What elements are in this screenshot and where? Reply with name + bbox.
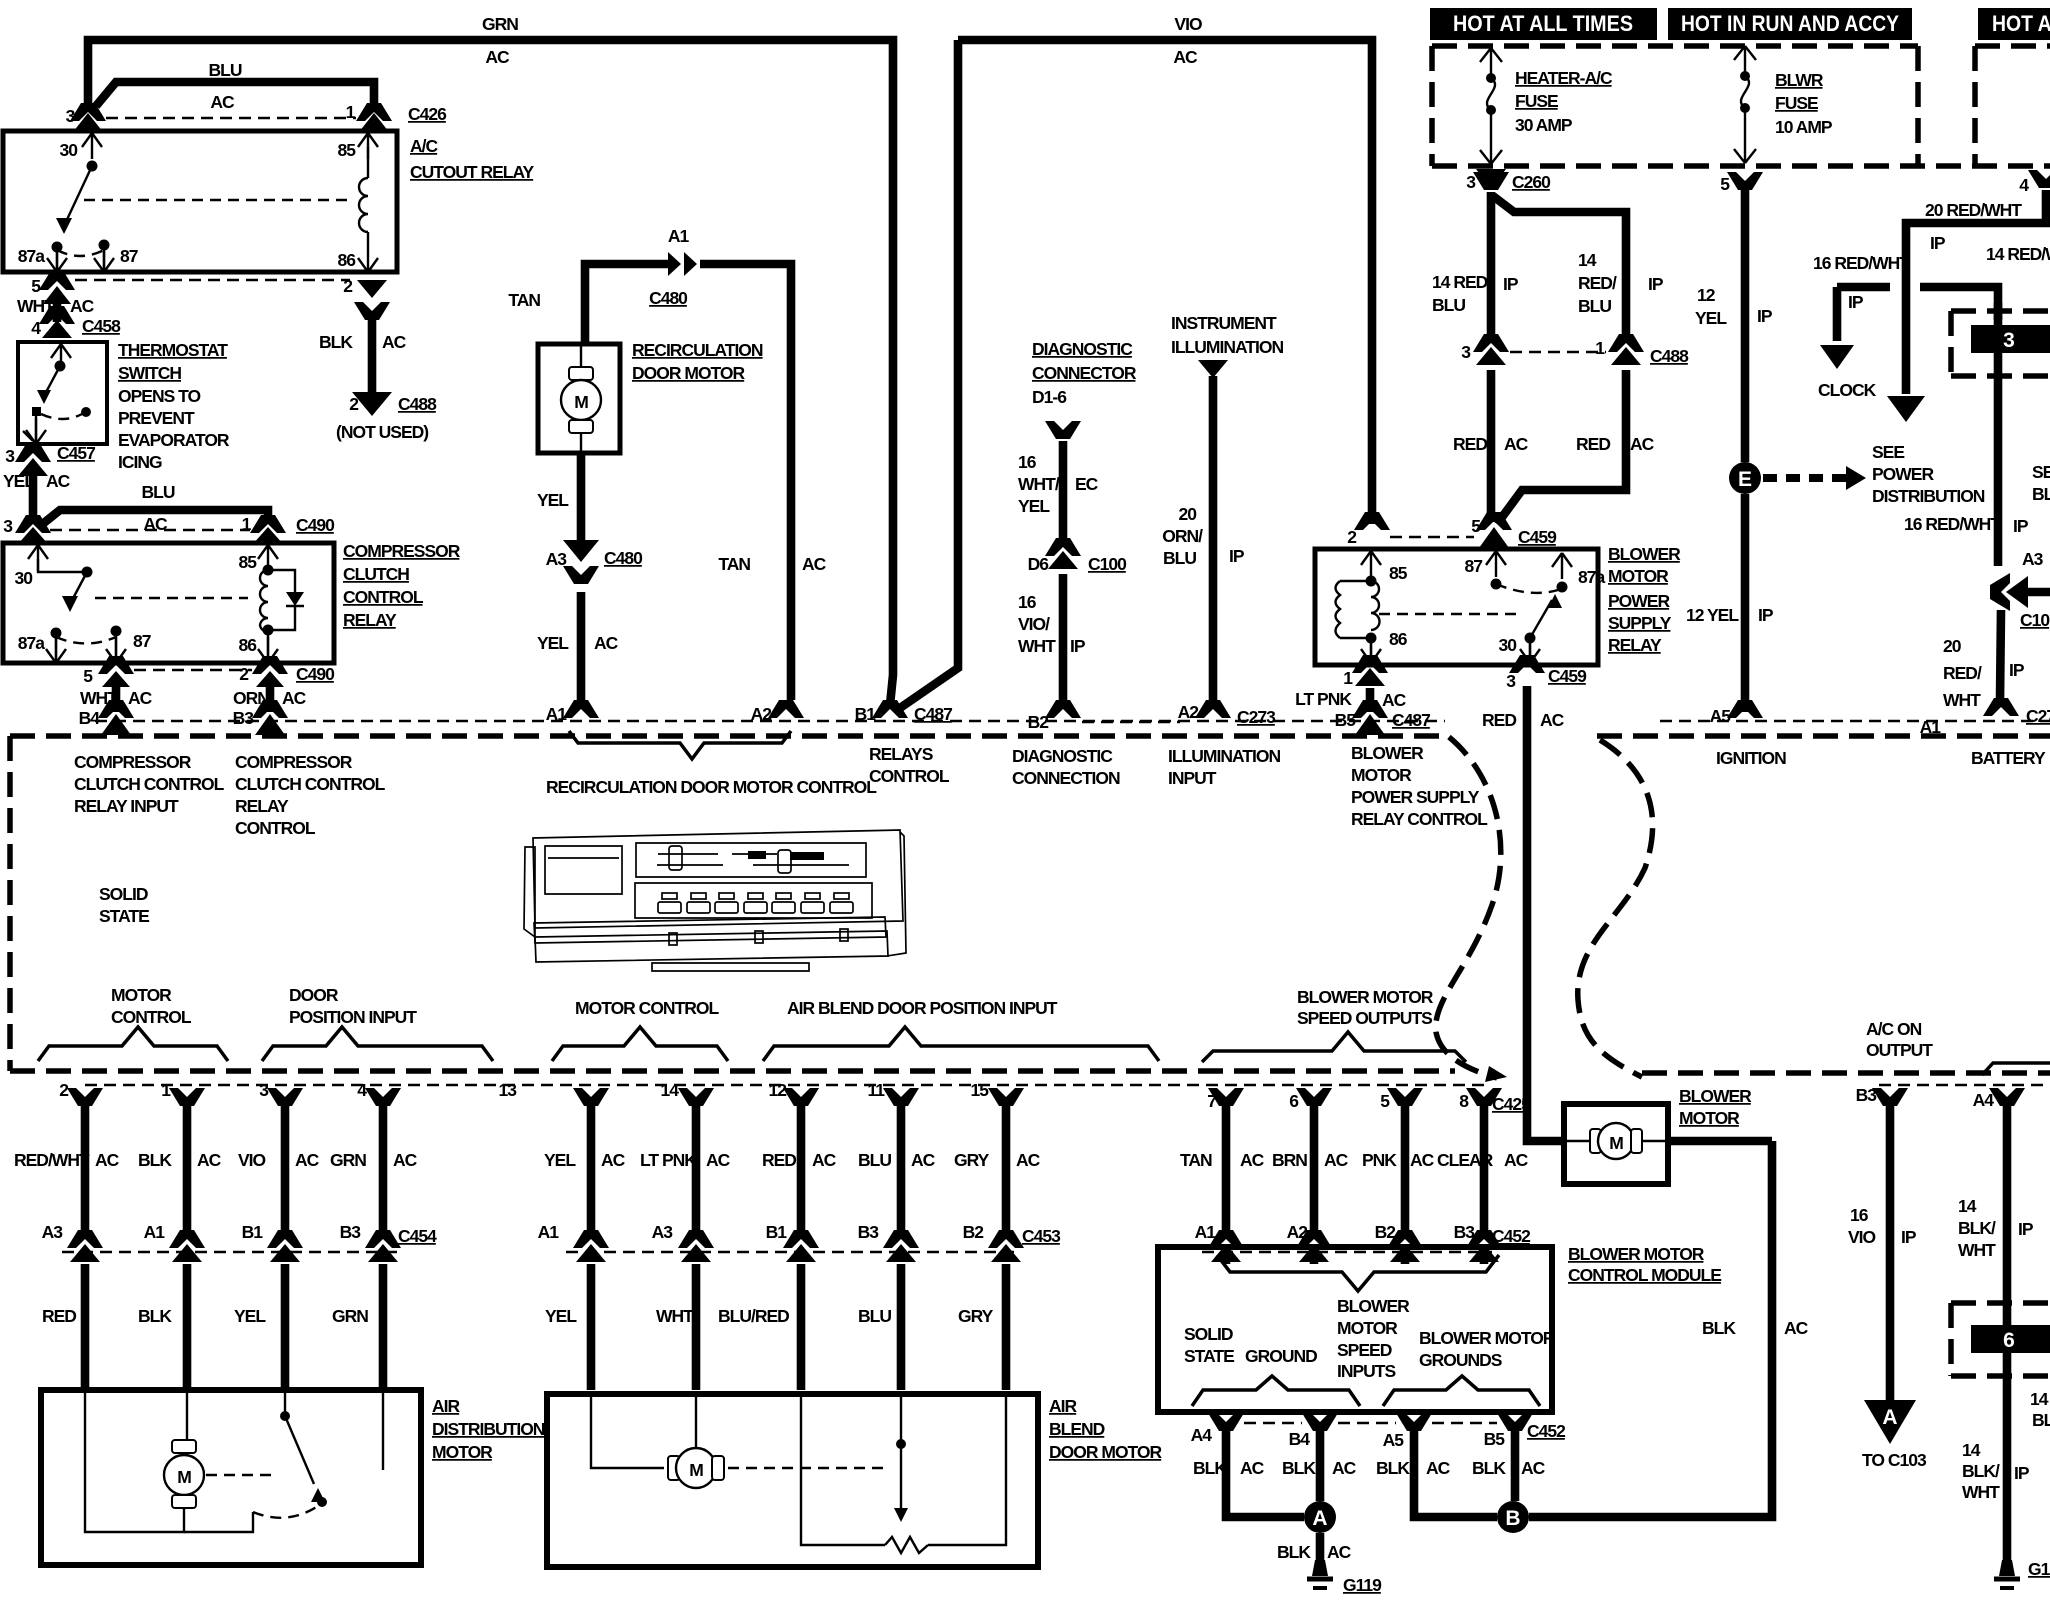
svg-text:AC: AC bbox=[1382, 690, 1407, 710]
svg-text:BLOWER MOTOR: BLOWER MOTOR bbox=[1419, 1328, 1556, 1348]
svg-text:14: 14 bbox=[661, 1080, 680, 1100]
svg-text:TAN: TAN bbox=[718, 554, 750, 574]
svg-text:B1: B1 bbox=[766, 1222, 788, 1242]
svg-text:5: 5 bbox=[1720, 174, 1730, 194]
svg-text:AC: AC bbox=[46, 471, 71, 491]
svg-text:HOT AT: HOT AT bbox=[1992, 11, 2050, 36]
svg-text:BLU: BLU bbox=[209, 60, 242, 80]
svg-text:COMPRESSOR: COMPRESSOR bbox=[235, 752, 353, 772]
svg-text:AC: AC bbox=[485, 47, 510, 67]
svg-text:3: 3 bbox=[3, 516, 13, 536]
svg-text:C27: C27 bbox=[2026, 706, 2050, 726]
svg-text:3: 3 bbox=[259, 1080, 269, 1100]
svg-text:3: 3 bbox=[1466, 172, 1476, 192]
svg-text:CONNECTOR: CONNECTOR bbox=[1032, 363, 1137, 383]
svg-text:30 AMP: 30 AMP bbox=[1515, 115, 1573, 135]
svg-text:YEL: YEL bbox=[537, 633, 569, 653]
svg-text:WHT: WHT bbox=[1962, 1482, 2000, 1502]
svg-text:5: 5 bbox=[1471, 516, 1481, 536]
svg-text:THERMOSTAT: THERMOSTAT bbox=[118, 340, 228, 360]
svg-text:YEL: YEL bbox=[3, 471, 35, 491]
svg-text:HEATER-A/C: HEATER-A/C bbox=[1515, 68, 1613, 88]
svg-text:1: 1 bbox=[1595, 338, 1605, 358]
svg-text:14: 14 bbox=[1962, 1440, 1981, 1460]
svg-text:RED: RED bbox=[1482, 710, 1516, 730]
svg-text:TAN: TAN bbox=[508, 290, 540, 310]
svg-text:A4: A4 bbox=[1191, 1425, 1213, 1445]
svg-text:IP: IP bbox=[1758, 605, 1774, 625]
svg-text:BLK: BLK bbox=[138, 1306, 172, 1326]
svg-text:FUSE: FUSE bbox=[1515, 91, 1558, 111]
svg-text:20 RED/WHT: 20 RED/WHT bbox=[1925, 200, 2022, 220]
svg-text:B5: B5 bbox=[1484, 1429, 1506, 1449]
svg-text:C426: C426 bbox=[408, 104, 447, 124]
svg-text:A: A bbox=[1312, 1507, 1327, 1530]
svg-text:BLOWER: BLOWER bbox=[1608, 544, 1681, 564]
svg-text:MOTOR: MOTOR bbox=[1351, 765, 1412, 785]
svg-text:AC: AC bbox=[1324, 1150, 1349, 1170]
svg-text:BLU: BLU bbox=[1432, 295, 1465, 315]
svg-text:RELAYS: RELAYS bbox=[869, 744, 933, 764]
svg-text:BLOWER MOTOR: BLOWER MOTOR bbox=[1568, 1244, 1705, 1264]
svg-text:MOTOR: MOTOR bbox=[432, 1442, 493, 1462]
svg-text:IGNITION: IGNITION bbox=[1716, 748, 1786, 768]
svg-text:A3: A3 bbox=[652, 1222, 674, 1242]
svg-text:5: 5 bbox=[31, 276, 41, 296]
svg-text:AC: AC bbox=[282, 688, 307, 708]
svg-text:10 AMP: 10 AMP bbox=[1775, 117, 1833, 137]
svg-text:AC: AC bbox=[1327, 1542, 1352, 1562]
svg-text:RELAY INPUT: RELAY INPUT bbox=[74, 796, 179, 816]
svg-text:BLK: BLK bbox=[1376, 1458, 1410, 1478]
svg-text:A: A bbox=[1882, 1406, 1897, 1429]
svg-text:BLU: BLU bbox=[858, 1306, 891, 1326]
svg-text:C490: C490 bbox=[296, 515, 335, 535]
svg-text:3: 3 bbox=[66, 106, 76, 126]
svg-text:AC: AC bbox=[1521, 1458, 1546, 1478]
svg-text:A3: A3 bbox=[2022, 549, 2044, 569]
svg-text:STATE: STATE bbox=[99, 906, 149, 926]
svg-text:CLUTCH: CLUTCH bbox=[343, 564, 409, 584]
svg-text:IP: IP bbox=[2013, 516, 2029, 536]
svg-text:6: 6 bbox=[1289, 1091, 1299, 1111]
svg-text:16: 16 bbox=[1018, 592, 1037, 612]
svg-text:C458: C458 bbox=[82, 316, 121, 336]
svg-text:GRY: GRY bbox=[958, 1306, 994, 1326]
svg-text:A/C: A/C bbox=[410, 136, 439, 156]
svg-text:PNK: PNK bbox=[1362, 1150, 1397, 1170]
svg-text:C488: C488 bbox=[398, 394, 437, 414]
svg-text:DOOR MOTOR: DOOR MOTOR bbox=[1049, 1442, 1163, 1462]
svg-text:RED: RED bbox=[1576, 434, 1610, 454]
svg-text:C459: C459 bbox=[1518, 527, 1557, 547]
svg-text:COMPRESSOR: COMPRESSOR bbox=[74, 752, 192, 772]
svg-text:GRN: GRN bbox=[482, 14, 518, 34]
svg-text:16: 16 bbox=[1018, 452, 1037, 472]
svg-text:IP: IP bbox=[2018, 1219, 2034, 1239]
svg-text:CONTROL MODULE: CONTROL MODULE bbox=[1568, 1265, 1721, 1285]
svg-text:3: 3 bbox=[1506, 671, 1516, 691]
svg-text:SOLID: SOLID bbox=[99, 884, 148, 904]
svg-text:A/C ON: A/C ON bbox=[1866, 1019, 1922, 1039]
svg-text:BLOWER MOTOR: BLOWER MOTOR bbox=[1297, 987, 1434, 1007]
svg-text:WHT: WHT bbox=[1958, 1240, 1996, 1260]
svg-text:CONNECTION: CONNECTION bbox=[1012, 768, 1120, 788]
svg-text:12 YEL: 12 YEL bbox=[1686, 605, 1739, 625]
svg-text:1: 1 bbox=[242, 514, 252, 534]
svg-text:DISTRIBUTION: DISTRIBUTION bbox=[1872, 486, 1985, 506]
svg-text:CLEAR: CLEAR bbox=[1437, 1150, 1494, 1170]
svg-text:AC: AC bbox=[594, 633, 619, 653]
svg-text:TO C103: TO C103 bbox=[1862, 1450, 1927, 1470]
svg-text:BLU/RED: BLU/RED bbox=[718, 1306, 789, 1326]
svg-text:RED: RED bbox=[1453, 434, 1487, 454]
svg-text:SUPPLY: SUPPLY bbox=[1608, 613, 1672, 633]
svg-text:16: 16 bbox=[1850, 1205, 1869, 1225]
svg-text:BLK: BLK bbox=[319, 332, 353, 352]
svg-text:VIO: VIO bbox=[1848, 1227, 1876, 1247]
svg-text:AC: AC bbox=[802, 554, 827, 574]
svg-text:LT PNK: LT PNK bbox=[1295, 689, 1352, 709]
svg-text:3: 3 bbox=[1461, 342, 1471, 362]
svg-text:BRN: BRN bbox=[1272, 1150, 1307, 1170]
svg-text:2: 2 bbox=[239, 664, 249, 684]
svg-text:14 RED/: 14 RED/ bbox=[1432, 272, 1492, 292]
svg-text:86: 86 bbox=[239, 635, 258, 655]
svg-text:B2: B2 bbox=[963, 1222, 985, 1242]
svg-text:30: 30 bbox=[60, 140, 79, 160]
svg-text:30: 30 bbox=[15, 568, 34, 588]
svg-text:YEL: YEL bbox=[537, 490, 569, 510]
svg-text:CONTROL: CONTROL bbox=[869, 766, 950, 786]
svg-text:87: 87 bbox=[120, 246, 138, 266]
svg-text:EVAPORATOR: EVAPORATOR bbox=[118, 430, 230, 450]
svg-text:8: 8 bbox=[1459, 1091, 1469, 1111]
svg-text:87a: 87a bbox=[1578, 567, 1605, 587]
svg-text:RELAY: RELAY bbox=[343, 610, 397, 630]
svg-text:AC: AC bbox=[382, 332, 407, 352]
svg-text:BLU: BLU bbox=[858, 1150, 891, 1170]
svg-text:POWER SUPPLY: POWER SUPPLY bbox=[1351, 787, 1480, 807]
svg-text:ILLUMINATION: ILLUMINATION bbox=[1168, 746, 1280, 766]
svg-text:VIO: VIO bbox=[1174, 14, 1202, 34]
svg-text:20: 20 bbox=[1179, 504, 1198, 524]
svg-text:BLK/: BLK/ bbox=[1958, 1218, 1996, 1238]
svg-text:C425: C425 bbox=[1492, 1094, 1531, 1114]
svg-text:PREVENT: PREVENT bbox=[118, 408, 195, 428]
svg-text:BLK: BLK bbox=[1472, 1458, 1506, 1478]
svg-text:14: 14 bbox=[2030, 1389, 2049, 1409]
svg-text:IP: IP bbox=[2009, 660, 2025, 680]
svg-text:C10: C10 bbox=[2020, 610, 2050, 630]
svg-text:2: 2 bbox=[59, 1080, 69, 1100]
svg-text:AC: AC bbox=[128, 688, 153, 708]
svg-text:BATTERY: BATTERY bbox=[1971, 748, 2046, 768]
svg-text:2: 2 bbox=[1347, 527, 1357, 547]
svg-text:AC: AC bbox=[1173, 47, 1198, 67]
svg-text:11: 11 bbox=[868, 1080, 886, 1100]
svg-text:OUTPUT: OUTPUT bbox=[1866, 1040, 1933, 1060]
svg-text:ICING: ICING bbox=[118, 452, 162, 472]
svg-text:SPEED OUTPUTS: SPEED OUTPUTS bbox=[1297, 1008, 1432, 1028]
svg-text:YEL: YEL bbox=[1695, 308, 1727, 328]
svg-text:AIR: AIR bbox=[432, 1396, 461, 1416]
svg-text:WHT: WHT bbox=[656, 1306, 694, 1326]
svg-text:A2: A2 bbox=[1178, 702, 1200, 722]
svg-text:(NOT USED): (NOT USED) bbox=[336, 422, 428, 442]
svg-text:AC: AC bbox=[197, 1150, 222, 1170]
svg-text:AC: AC bbox=[1504, 434, 1529, 454]
svg-text:C490: C490 bbox=[296, 664, 335, 684]
svg-text:CONTROL: CONTROL bbox=[343, 587, 424, 607]
svg-text:BLK: BLK bbox=[2032, 1410, 2050, 1430]
svg-text:B2: B2 bbox=[1375, 1222, 1397, 1242]
svg-text:RED: RED bbox=[42, 1306, 76, 1326]
svg-text:WHT: WHT bbox=[1943, 690, 1981, 710]
svg-text:87: 87 bbox=[1465, 556, 1483, 576]
svg-text:CONTROL: CONTROL bbox=[111, 1007, 192, 1027]
svg-text:DIAGNOSTIC: DIAGNOSTIC bbox=[1032, 339, 1133, 359]
svg-text:YEL: YEL bbox=[234, 1306, 266, 1326]
svg-text:DIAGNOSTIC: DIAGNOSTIC bbox=[1012, 746, 1113, 766]
svg-text:E: E bbox=[1738, 468, 1752, 491]
svg-text:14 RED/WHT: 14 RED/WHT bbox=[1986, 244, 2050, 264]
svg-text:AIR BLEND DOOR POSITION INPUT: AIR BLEND DOOR POSITION INPUT bbox=[787, 998, 1058, 1018]
svg-text:BLK: BLK bbox=[1282, 1458, 1316, 1478]
svg-text:RECIRCULATION: RECIRCULATION bbox=[632, 340, 763, 360]
svg-text:IP: IP bbox=[1648, 274, 1664, 294]
svg-text:87a: 87a bbox=[18, 633, 45, 653]
svg-text:ORN/: ORN/ bbox=[1162, 526, 1203, 546]
svg-text:30: 30 bbox=[1499, 635, 1518, 655]
svg-text:87: 87 bbox=[133, 631, 151, 651]
svg-text:C459: C459 bbox=[1548, 666, 1587, 686]
svg-text:EC: EC bbox=[1075, 474, 1099, 494]
svg-text:TAN: TAN bbox=[1180, 1150, 1212, 1170]
svg-text:CLOCK: CLOCK bbox=[1818, 380, 1877, 400]
svg-text:B4: B4 bbox=[79, 708, 101, 728]
svg-text:WHT/: WHT/ bbox=[1018, 474, 1060, 494]
svg-text:C100: C100 bbox=[1088, 554, 1127, 574]
svg-text:16 RED/WHT: 16 RED/WHT bbox=[1904, 514, 2001, 534]
svg-text:G119: G119 bbox=[1343, 1575, 1382, 1595]
svg-text:BLK: BLK bbox=[1702, 1318, 1736, 1338]
svg-text:RED/WHT: RED/WHT bbox=[14, 1150, 90, 1170]
svg-text:15: 15 bbox=[971, 1080, 990, 1100]
svg-text:3: 3 bbox=[5, 446, 15, 466]
svg-text:A2: A2 bbox=[1287, 1222, 1309, 1242]
svg-text:AC: AC bbox=[95, 1150, 120, 1170]
svg-text:13: 13 bbox=[499, 1080, 518, 1100]
svg-text:A1: A1 bbox=[538, 1222, 560, 1242]
svg-text:C457: C457 bbox=[57, 443, 95, 463]
svg-text:BLK: BLK bbox=[1277, 1542, 1311, 1562]
svg-text:INSTRUMENT: INSTRUMENT bbox=[1171, 313, 1277, 333]
svg-text:C273: C273 bbox=[1237, 707, 1276, 727]
svg-text:BLOWER: BLOWER bbox=[1351, 743, 1424, 763]
svg-text:MOTOR: MOTOR bbox=[1608, 566, 1669, 586]
svg-text:AC: AC bbox=[70, 296, 95, 316]
svg-text:MOTOR: MOTOR bbox=[1337, 1318, 1398, 1338]
svg-text:C480: C480 bbox=[649, 288, 688, 308]
svg-text:A1: A1 bbox=[144, 1222, 166, 1242]
svg-text:C454: C454 bbox=[398, 1226, 437, 1246]
svg-text:AC: AC bbox=[1240, 1150, 1265, 1170]
svg-text:C480: C480 bbox=[604, 548, 643, 568]
svg-text:SOLID: SOLID bbox=[1184, 1324, 1233, 1344]
svg-text:DOOR: DOOR bbox=[289, 985, 339, 1005]
svg-text:1: 1 bbox=[1343, 668, 1353, 688]
svg-text:INPUTS: INPUTS bbox=[1337, 1361, 1396, 1381]
svg-text:CUTOUT RELAY: CUTOUT RELAY bbox=[410, 162, 534, 182]
svg-text:RELAY CONTROL: RELAY CONTROL bbox=[1351, 809, 1488, 829]
svg-text:BLU: BLU bbox=[142, 482, 175, 502]
svg-text:A1: A1 bbox=[668, 226, 690, 246]
svg-text:IP: IP bbox=[1848, 292, 1864, 312]
svg-text:2: 2 bbox=[343, 276, 353, 296]
svg-text:14: 14 bbox=[1958, 1196, 1977, 1216]
svg-text:BLK: BLK bbox=[1193, 1458, 1227, 1478]
svg-text:SEE: SEE bbox=[2032, 462, 2050, 482]
svg-text:IP: IP bbox=[1070, 636, 1086, 656]
svg-text:12: 12 bbox=[1697, 285, 1716, 305]
svg-text:A3: A3 bbox=[546, 549, 568, 569]
svg-text:B4: B4 bbox=[1289, 1429, 1311, 1449]
svg-text:C452: C452 bbox=[1492, 1226, 1531, 1246]
svg-text:IP: IP bbox=[1901, 1227, 1917, 1247]
svg-text:VIO: VIO bbox=[238, 1150, 266, 1170]
svg-text:CONTROL: CONTROL bbox=[235, 818, 316, 838]
svg-text:87a: 87a bbox=[18, 246, 45, 266]
svg-text:M: M bbox=[177, 1467, 191, 1487]
svg-text:MOTOR CONTROL: MOTOR CONTROL bbox=[575, 998, 720, 1018]
svg-text:POSITION INPUT: POSITION INPUT bbox=[289, 1007, 417, 1027]
svg-text:AC: AC bbox=[1784, 1318, 1809, 1338]
svg-text:GRY: GRY bbox=[954, 1150, 990, 1170]
svg-text:D1-6: D1-6 bbox=[1032, 387, 1067, 407]
svg-text:FUSE: FUSE bbox=[1775, 93, 1818, 113]
svg-text:B3: B3 bbox=[340, 1222, 362, 1242]
svg-text:BLK/: BLK/ bbox=[1962, 1461, 2000, 1481]
svg-text:HOT AT ALL TIMES: HOT AT ALL TIMES bbox=[1453, 11, 1633, 36]
svg-text:C453: C453 bbox=[1022, 1226, 1061, 1246]
svg-text:B1: B1 bbox=[242, 1222, 264, 1242]
svg-text:A5: A5 bbox=[1710, 706, 1732, 726]
svg-text:AC: AC bbox=[1016, 1150, 1041, 1170]
svg-text:CLUTCH CONTROL: CLUTCH CONTROL bbox=[235, 774, 386, 794]
svg-text:3: 3 bbox=[2003, 329, 2015, 352]
svg-text:D6: D6 bbox=[1028, 554, 1050, 574]
svg-text:MOTOR: MOTOR bbox=[1679, 1108, 1740, 1128]
svg-text:WHT: WHT bbox=[1018, 636, 1056, 656]
svg-text:AC: AC bbox=[1410, 1150, 1435, 1170]
svg-text:B: B bbox=[1505, 1507, 1520, 1530]
svg-text:C488: C488 bbox=[1650, 346, 1689, 366]
svg-text:VIO/: VIO/ bbox=[1018, 614, 1050, 634]
svg-text:IP: IP bbox=[1757, 306, 1773, 326]
svg-text:BLO: BLO bbox=[2032, 484, 2050, 504]
svg-text:5: 5 bbox=[83, 666, 93, 686]
svg-text:AC: AC bbox=[1332, 1458, 1357, 1478]
svg-text:M: M bbox=[1609, 1133, 1623, 1153]
svg-text:AC: AC bbox=[1240, 1458, 1265, 1478]
svg-text:6: 6 bbox=[2003, 1329, 2015, 1352]
svg-text:GROUND: GROUND bbox=[1245, 1346, 1317, 1366]
svg-text:RELAY: RELAY bbox=[1608, 635, 1662, 655]
svg-text:16 RED/WHT: 16 RED/WHT bbox=[1813, 253, 1910, 273]
svg-text:AC: AC bbox=[295, 1150, 320, 1170]
svg-text:B3: B3 bbox=[233, 708, 255, 728]
svg-text:4: 4 bbox=[31, 318, 41, 338]
svg-text:AC: AC bbox=[393, 1150, 418, 1170]
svg-text:GRN: GRN bbox=[332, 1306, 368, 1326]
svg-text:BLK: BLK bbox=[138, 1150, 172, 1170]
svg-text:AC: AC bbox=[210, 92, 235, 112]
svg-text:12: 12 bbox=[769, 1080, 788, 1100]
svg-text:7: 7 bbox=[1207, 1091, 1216, 1111]
svg-text:RED/: RED/ bbox=[1578, 273, 1617, 293]
svg-text:C452: C452 bbox=[1527, 1421, 1566, 1441]
svg-text:RED: RED bbox=[762, 1150, 796, 1170]
svg-text:A3: A3 bbox=[42, 1222, 64, 1242]
svg-text:GROUNDS: GROUNDS bbox=[1419, 1350, 1502, 1370]
svg-text:AC: AC bbox=[911, 1150, 936, 1170]
svg-text:IP: IP bbox=[1503, 274, 1519, 294]
svg-text:LT PNK: LT PNK bbox=[640, 1150, 697, 1170]
svg-text:AIR: AIR bbox=[1049, 1396, 1078, 1416]
svg-text:COMPRESSOR: COMPRESSOR bbox=[343, 541, 461, 561]
svg-text:IP: IP bbox=[1930, 233, 1946, 253]
svg-text:SPEED: SPEED bbox=[1337, 1340, 1392, 1360]
svg-text:A4: A4 bbox=[1973, 1090, 1995, 1110]
svg-text:CLUTCH CONTROL: CLUTCH CONTROL bbox=[74, 774, 225, 794]
svg-text:BLWR: BLWR bbox=[1775, 70, 1824, 90]
svg-text:RECIRCULATION DOOR MOTOR CONTR: RECIRCULATION DOOR MOTOR CONTROL bbox=[546, 777, 877, 797]
svg-text:A5: A5 bbox=[1383, 1430, 1405, 1450]
svg-text:85: 85 bbox=[338, 140, 357, 160]
svg-text:DISTRIBUTION: DISTRIBUTION bbox=[432, 1419, 545, 1439]
svg-text:1: 1 bbox=[346, 102, 356, 122]
svg-text:2: 2 bbox=[349, 394, 359, 414]
svg-text:85: 85 bbox=[1389, 563, 1408, 583]
svg-text:1: 1 bbox=[161, 1080, 171, 1100]
svg-text:14: 14 bbox=[1578, 250, 1597, 270]
svg-text:ILLUMINATION: ILLUMINATION bbox=[1171, 337, 1283, 357]
svg-text:C260: C260 bbox=[1512, 172, 1551, 192]
svg-text:20: 20 bbox=[1943, 636, 1962, 656]
svg-text:AC: AC bbox=[1540, 710, 1565, 730]
svg-text:M: M bbox=[689, 1460, 703, 1480]
svg-text:SEE: SEE bbox=[1872, 442, 1904, 462]
svg-text:5: 5 bbox=[1380, 1091, 1390, 1111]
svg-text:YEL: YEL bbox=[544, 1150, 576, 1170]
svg-text:SWITCH: SWITCH bbox=[118, 363, 181, 383]
svg-text:AC: AC bbox=[812, 1150, 837, 1170]
svg-text:OPENS TO: OPENS TO bbox=[118, 386, 201, 406]
svg-text:B3: B3 bbox=[1856, 1085, 1878, 1105]
svg-text:85: 85 bbox=[239, 552, 258, 572]
svg-text:86: 86 bbox=[1389, 629, 1408, 649]
svg-text:POWER: POWER bbox=[1608, 591, 1670, 611]
svg-text:MOTOR: MOTOR bbox=[111, 985, 172, 1005]
svg-text:STATE: STATE bbox=[1184, 1346, 1234, 1366]
svg-text:AC: AC bbox=[1630, 434, 1655, 454]
svg-text:YEL: YEL bbox=[545, 1306, 577, 1326]
svg-text:BLOWER: BLOWER bbox=[1679, 1086, 1752, 1106]
svg-text:GRN: GRN bbox=[330, 1150, 366, 1170]
svg-text:POWER: POWER bbox=[1872, 464, 1934, 484]
svg-text:4: 4 bbox=[2019, 175, 2029, 195]
